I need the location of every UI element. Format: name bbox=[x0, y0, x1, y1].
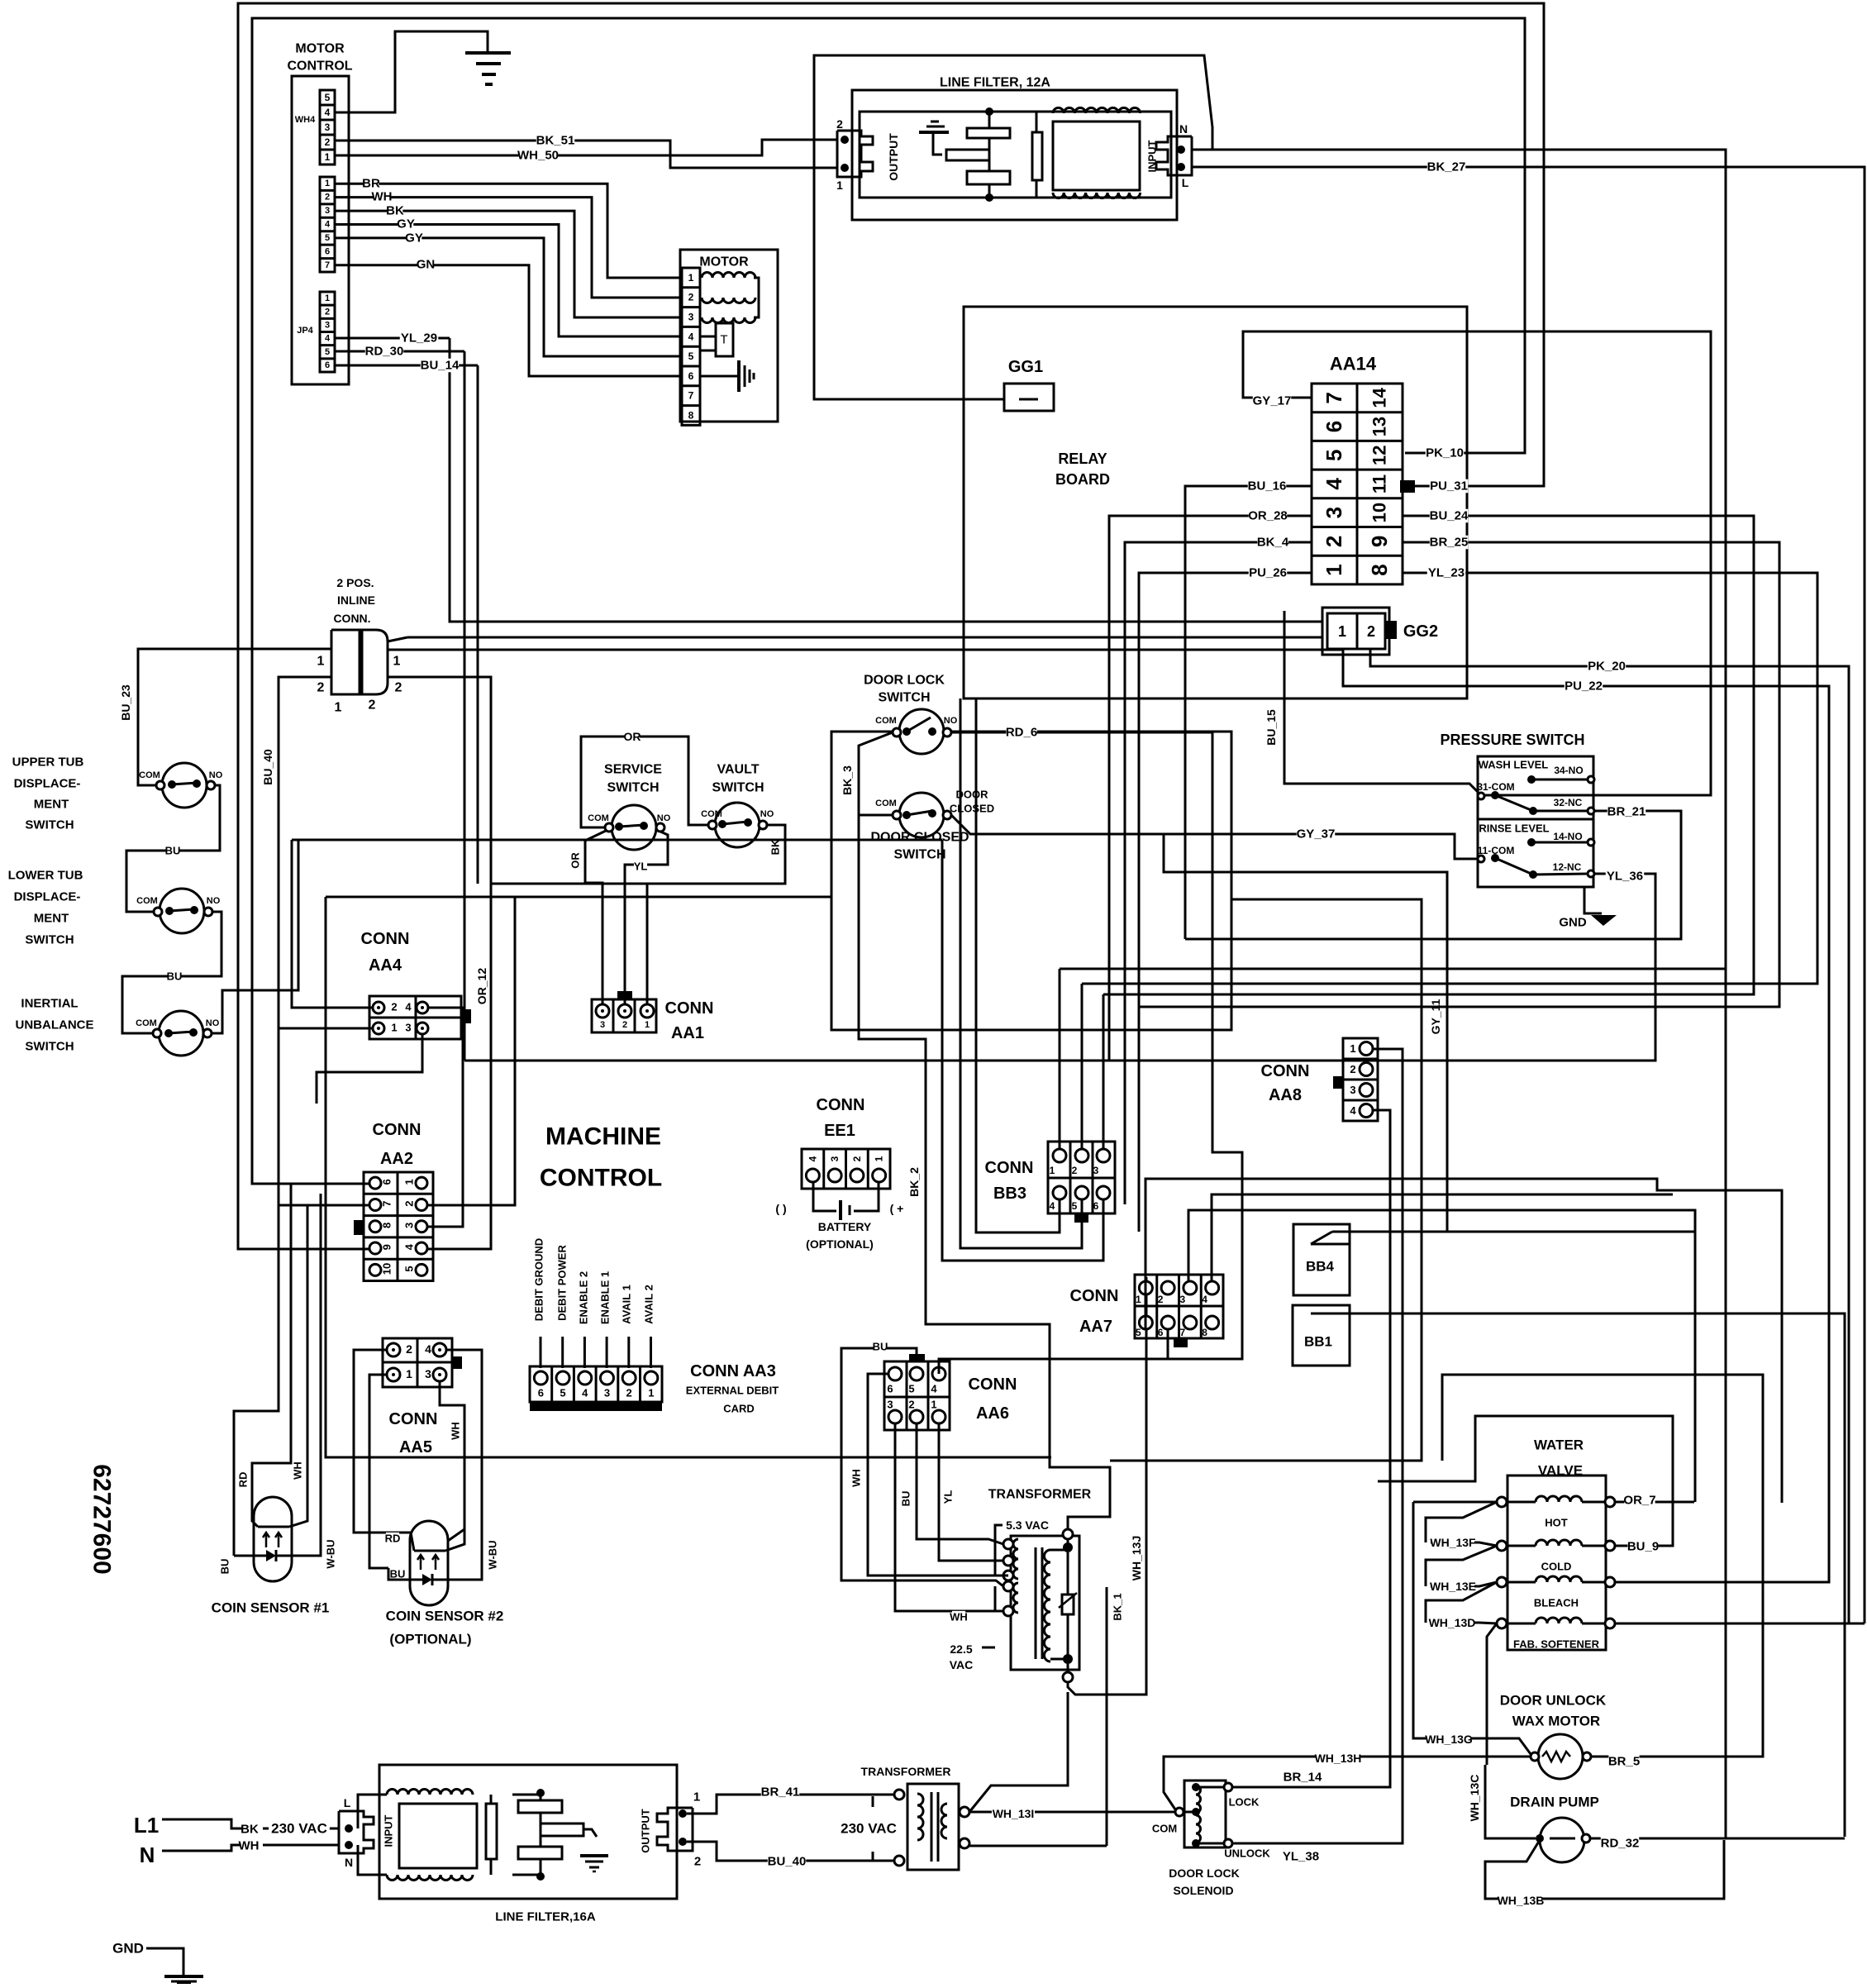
wire AA7 pin3 up bbox=[1188, 1210, 1695, 1502]
wire AA2 pin4 right bbox=[427, 884, 491, 1249]
wire RD_30 bbox=[335, 350, 464, 353]
svg-text:2: 2 bbox=[406, 1342, 412, 1356]
svg-text:1: 1 bbox=[393, 655, 401, 669]
line filter mid junctions bbox=[988, 112, 991, 128]
line filter 16A top coil bbox=[387, 1790, 473, 1795]
wire BR_14 bbox=[1232, 1786, 1390, 1789]
inertial switch circle bbox=[159, 1011, 203, 1056]
line filter cap 1 bbox=[967, 128, 1010, 138]
lower tub switch circle bbox=[160, 889, 204, 933]
svg-text:WH_13I: WH_13I bbox=[993, 1807, 1035, 1820]
wire 1069 line bbox=[491, 883, 647, 885]
svg-text:PK_20: PK_20 bbox=[1588, 660, 1626, 674]
line filter coil bottom bbox=[1053, 193, 1141, 198]
svg-text:5: 5 bbox=[688, 350, 694, 362]
wire BK_51 bbox=[335, 141, 837, 168]
svg-text:OR_7: OR_7 bbox=[1623, 1494, 1655, 1508]
motor winding 2 bbox=[702, 298, 755, 303]
svg-text:PU_31: PU_31 bbox=[1430, 479, 1468, 493]
svg-text:AA8: AA8 bbox=[1269, 1086, 1302, 1104]
svg-text:8: 8 bbox=[381, 1223, 393, 1228]
svg-text:4: 4 bbox=[1350, 1104, 1356, 1117]
svg-text:CONN.: CONN. bbox=[333, 612, 370, 625]
svg-text:GY_11: GY_11 bbox=[1429, 999, 1442, 1034]
svg-text:14: 14 bbox=[1369, 387, 1390, 408]
wire WH_13B bbox=[1485, 1840, 1724, 1899]
svg-text:14-NO: 14-NO bbox=[1553, 831, 1582, 842]
connector AA3 wires up bbox=[540, 1337, 542, 1368]
coin sensor 1 W-BU lead bbox=[292, 1194, 321, 1556]
drain pump contacts bbox=[1536, 1834, 1544, 1843]
svg-text:BLEACH: BLEACH bbox=[1534, 1597, 1579, 1609]
svg-text:INERTIAL: INERTIAL bbox=[21, 997, 78, 1011]
svg-text:5: 5 bbox=[1322, 450, 1346, 461]
svg-text:6: 6 bbox=[325, 360, 330, 370]
motor control middle pin block bbox=[320, 177, 335, 272]
svg-text:BR_5: BR_5 bbox=[1608, 1755, 1640, 1769]
svg-text:WH: WH bbox=[450, 1422, 462, 1440]
output pin 2 dot bbox=[841, 136, 849, 144]
svg-text:EXTERNAL DEBIT: EXTERNAL DEBIT bbox=[686, 1385, 779, 1397]
wire AA6 pin6 left bbox=[868, 1374, 1003, 1576]
connector AA5 bbox=[383, 1338, 452, 1387]
svg-text:CLOSED: CLOSED bbox=[950, 803, 994, 815]
svg-text:WASH LEVEL: WASH LEVEL bbox=[1479, 759, 1549, 771]
svg-text:YL_38: YL_38 bbox=[1283, 1850, 1319, 1864]
coin sensor 1 BU lead bbox=[234, 1555, 254, 1557]
wire AA8 pin1 right down bbox=[1316, 1049, 1403, 1843]
svg-text:13: 13 bbox=[1369, 417, 1390, 436]
water valve common bus diag HOT bbox=[1426, 1502, 1497, 1542]
wire WH_13E bbox=[1431, 1582, 1497, 1586]
svg-text:6: 6 bbox=[1322, 421, 1346, 432]
svg-text:OR: OR bbox=[624, 730, 641, 743]
svg-text:AVAIL 1: AVAIL 1 bbox=[621, 1285, 633, 1324]
output 16A dots bbox=[679, 1809, 687, 1818]
svg-text:CONN: CONN bbox=[389, 1410, 438, 1428]
svg-text:GY: GY bbox=[405, 231, 423, 246]
svg-text:CONN: CONN bbox=[665, 999, 714, 1018]
wire service NO YL bbox=[625, 832, 668, 1004]
svg-text:RD_32: RD_32 bbox=[1601, 1837, 1640, 1851]
wire OR_7 bbox=[1615, 1501, 1694, 1504]
svg-text:SWITCH: SWITCH bbox=[878, 691, 930, 705]
svg-text:3: 3 bbox=[405, 1022, 411, 1034]
line filter 12A inner box bbox=[860, 112, 1171, 198]
svg-text:8: 8 bbox=[1367, 564, 1392, 575]
svg-text:2: 2 bbox=[908, 1399, 914, 1411]
transformer core bbox=[1035, 1547, 1037, 1659]
svg-text:DOOR LOCK: DOOR LOCK bbox=[864, 674, 945, 688]
svg-text:CARD: CARD bbox=[723, 1403, 755, 1415]
svg-text:BB3: BB3 bbox=[993, 1185, 1026, 1203]
svg-text:4: 4 bbox=[405, 1001, 412, 1013]
vault switch contacts bbox=[708, 821, 717, 829]
svg-text:3: 3 bbox=[1322, 507, 1346, 518]
wire BB3 pin3 up bbox=[1103, 994, 1105, 1149]
wire BK_1 bbox=[1106, 1587, 1108, 1846]
svg-text:BU_23: BU_23 bbox=[119, 684, 132, 721]
line filter vertical resistor bbox=[1036, 112, 1038, 198]
wire BU_14 bbox=[335, 365, 478, 367]
line filter 16A bottom coil bbox=[387, 1875, 473, 1881]
wire service COM diagonal OR bbox=[585, 831, 606, 1004]
svg-text:COLD: COLD bbox=[1541, 1561, 1572, 1573]
AA3 black bar bbox=[530, 1402, 662, 1411]
AA8 black square bbox=[1333, 1076, 1343, 1089]
svg-text:2: 2 bbox=[391, 1001, 397, 1013]
motor pin block bbox=[682, 268, 700, 425]
svg-text:DISPLACE-: DISPLACE- bbox=[14, 890, 81, 904]
svg-text:UPPER TUB: UPPER TUB bbox=[12, 756, 84, 770]
motor winding 1 bbox=[702, 273, 755, 278]
svg-text:LINE FILTER, 12A: LINE FILTER, 12A bbox=[940, 76, 1050, 90]
wire BU_23 up bbox=[138, 649, 331, 785]
wire BB3 pin1 up bbox=[1059, 969, 1061, 1149]
svg-text:HOT: HOT bbox=[1545, 1517, 1568, 1529]
svg-text:2: 2 bbox=[403, 1201, 416, 1207]
svg-text:COM: COM bbox=[701, 809, 722, 819]
connector AA4 bbox=[369, 996, 461, 1039]
wire PU_31 big loop (AA2 pin9 to AA14 pin11 via left/top/right) bbox=[238, 3, 1544, 1249]
door lock switch contacts bbox=[893, 728, 901, 737]
svg-text:LINE FILTER,16A: LINE FILTER,16A bbox=[495, 1910, 596, 1924]
transformer 230 circles bbox=[894, 1790, 904, 1800]
connector AA14 pin11 black square bbox=[1400, 480, 1415, 493]
svg-text:L1: L1 bbox=[134, 1813, 159, 1838]
svg-text:BK: BK bbox=[769, 839, 782, 855]
svg-text:4: 4 bbox=[688, 331, 694, 342]
svg-text:32-NC: 32-NC bbox=[1554, 797, 1583, 808]
svg-text:1: 1 bbox=[693, 1790, 700, 1804]
wire vault NO BK bbox=[647, 825, 785, 1004]
svg-text:RD_30: RD_30 bbox=[365, 345, 404, 359]
svg-text:SWITCH: SWITCH bbox=[893, 848, 945, 862]
BB1 wire bbox=[1311, 1313, 1845, 1837]
coin sensor 2 WH lead bbox=[445, 1529, 464, 1551]
svg-text:5: 5 bbox=[403, 1266, 416, 1271]
svg-text:1: 1 bbox=[317, 655, 325, 669]
wire bundle 1172 horizontal (BB3 pin1 to N wire) bbox=[1060, 968, 1726, 970]
wire AA7 pin6 down bbox=[1167, 1329, 1169, 1359]
drain pump inner bbox=[1550, 1838, 1575, 1840]
svg-text:N: N bbox=[140, 1843, 155, 1867]
svg-text:CONTROL: CONTROL bbox=[287, 60, 352, 74]
coin sensor 2 W-BU lead bbox=[448, 1517, 482, 1580]
wire AA5 pin4 right bbox=[446, 1350, 482, 1517]
wire AA7 pin5 down WH_13J bbox=[1145, 1277, 1147, 1329]
svg-text:RINSE LEVEL: RINSE LEVEL bbox=[1479, 822, 1549, 835]
wire WH_13J vertical bbox=[1068, 1277, 1146, 1695]
svg-text:BU_15: BU_15 bbox=[1265, 709, 1278, 746]
coin sensor 1 RD lead bbox=[252, 1184, 291, 1527]
svg-text:BR_21: BR_21 bbox=[1607, 805, 1646, 819]
svg-text:4: 4 bbox=[325, 107, 331, 118]
varistor bbox=[1062, 1595, 1074, 1614]
svg-text:22.5: 22.5 bbox=[950, 1642, 972, 1656]
output connector 16A jigsaw bbox=[657, 1808, 693, 1851]
svg-text:COM: COM bbox=[1152, 1823, 1177, 1835]
upper tub switch circle bbox=[162, 763, 207, 808]
svg-text:VAC: VAC bbox=[950, 1658, 974, 1671]
svg-text:4: 4 bbox=[582, 1387, 588, 1399]
coin sensor 2 diode bbox=[422, 1574, 432, 1585]
svg-text:BU: BU bbox=[165, 845, 181, 857]
GND symbol bbox=[164, 1975, 203, 1978]
230 VAC label mid bbox=[838, 1821, 899, 1837]
svg-text:BOARD: BOARD bbox=[1055, 471, 1110, 488]
svg-text:MACHINE: MACHINE bbox=[545, 1123, 661, 1151]
svg-text:GND: GND bbox=[1559, 916, 1587, 930]
line filter 16A junctions bbox=[536, 1789, 545, 1797]
svg-text:T: T bbox=[720, 333, 727, 347]
wire water valve fab right bbox=[1615, 1623, 1865, 1625]
water valve bus diag BLEACH bbox=[1426, 1582, 1497, 1623]
connector GG2 bbox=[1322, 608, 1389, 655]
2 pos inline connector bbox=[331, 630, 360, 694]
svg-text:BU_9: BU_9 bbox=[1627, 1540, 1659, 1554]
svg-text:LOWER TUB: LOWER TUB bbox=[8, 869, 83, 883]
wire AA4 pin1 left bbox=[279, 1027, 373, 1030]
coin sensor 2 RD label bbox=[386, 1533, 399, 1544]
svg-text:7: 7 bbox=[325, 260, 330, 270]
svg-text:3: 3 bbox=[325, 320, 330, 330]
svg-text:GN: GN bbox=[417, 258, 436, 272]
door lock solenoid contacts bbox=[1175, 1808, 1184, 1816]
svg-text:WH_13J: WH_13J bbox=[1130, 1536, 1143, 1580]
svg-text:YL_29: YL_29 bbox=[401, 331, 437, 346]
wire BU_40 bottom bbox=[687, 1842, 894, 1861]
svg-text:230 VAC: 230 VAC bbox=[271, 1821, 327, 1837]
line filter core box bbox=[1053, 122, 1140, 190]
vault switch circle bbox=[715, 803, 760, 847]
coin sensor 2 BU label bbox=[391, 1568, 404, 1580]
motor box bbox=[680, 250, 778, 422]
svg-text:GY_17: GY_17 bbox=[1253, 394, 1292, 408]
output connector jigsaw (line filter 12A) bbox=[837, 131, 873, 177]
svg-text:CONN: CONN bbox=[361, 930, 410, 948]
svg-text:WAX MOTOR: WAX MOTOR bbox=[1512, 1714, 1600, 1729]
battery symbol bbox=[839, 1200, 842, 1220]
wire N to right bundle bbox=[1192, 150, 1726, 1838]
wax motor resistor bbox=[1542, 1752, 1570, 1762]
svg-text:WH_13C: WH_13C bbox=[1468, 1775, 1481, 1822]
svg-text:1: 1 bbox=[645, 1020, 650, 1030]
motor winding 3 bbox=[702, 317, 755, 323]
svg-text:WH: WH bbox=[239, 1839, 260, 1853]
svg-text:NO: NO bbox=[760, 809, 774, 819]
svg-text:2 POS.: 2 POS. bbox=[336, 576, 374, 589]
transformer secondary top wire bbox=[1050, 1549, 1068, 1552]
svg-text:BR_41: BR_41 bbox=[761, 1785, 800, 1800]
relay BB1 box bbox=[1293, 1305, 1350, 1366]
svg-text:ENABLE 1: ENABLE 1 bbox=[599, 1271, 612, 1324]
GND wire bbox=[146, 1948, 183, 1976]
svg-text:CONN: CONN bbox=[1261, 1062, 1310, 1080]
svg-text:2: 2 bbox=[622, 1020, 627, 1030]
svg-text:2: 2 bbox=[851, 1156, 863, 1161]
wire 2pos pin2 left (BU_40) bbox=[234, 677, 331, 1556]
connector AA1 black square bbox=[617, 991, 632, 999]
svg-text:AA7: AA7 bbox=[1079, 1318, 1112, 1336]
wire PK_10 loop (AA2 pin6 to AA14 pin12 via left/top) bbox=[252, 18, 1525, 1184]
svg-text:2: 2 bbox=[325, 307, 330, 317]
wire N bbox=[162, 1845, 250, 1851]
svg-text:4: 4 bbox=[325, 334, 331, 344]
wire GY_17 bbox=[1243, 331, 1711, 796]
svg-text:LOCK: LOCK bbox=[1229, 1796, 1260, 1809]
svg-text:WH_13F: WH_13F bbox=[1430, 1536, 1476, 1549]
svg-text:WH_13G: WH_13G bbox=[1425, 1733, 1473, 1746]
svg-text:AA6: AA6 bbox=[976, 1404, 1009, 1423]
svg-text:BU_40: BU_40 bbox=[261, 749, 274, 785]
wire AA7 pin1 up bbox=[1145, 1179, 1782, 1503]
svg-text:1: 1 bbox=[1322, 564, 1346, 575]
svg-text:PK_10: PK_10 bbox=[1426, 446, 1464, 460]
svg-text:CONN: CONN bbox=[969, 1375, 1017, 1394]
svg-text:11: 11 bbox=[1369, 474, 1390, 493]
connector WH4 pin block bbox=[320, 90, 335, 164]
svg-text:4: 4 bbox=[1202, 1294, 1207, 1305]
motor ground wire bbox=[700, 375, 739, 378]
svg-text:3: 3 bbox=[887, 1399, 893, 1411]
wire input N down into filter bbox=[358, 1845, 387, 1875]
svg-text:3: 3 bbox=[325, 122, 331, 133]
wire YL_38 bbox=[1232, 1843, 1403, 1845]
svg-text:WH_13E: WH_13E bbox=[1430, 1580, 1476, 1593]
svg-text:PRESSURE SWITCH: PRESSURE SWITCH bbox=[1440, 732, 1584, 748]
svg-text:YL_23: YL_23 bbox=[1428, 566, 1465, 580]
svg-text:WATER: WATER bbox=[1534, 1437, 1584, 1453]
svg-text:SWITCH: SWITCH bbox=[25, 933, 74, 947]
AA4 black square bbox=[461, 1009, 471, 1023]
svg-text:3: 3 bbox=[688, 312, 694, 323]
wire WH_13D bbox=[1431, 1623, 1497, 1623]
svg-text:10: 10 bbox=[381, 1263, 393, 1275]
wire BK_2 bbox=[859, 815, 1110, 1533]
svg-text:BK_51: BK_51 bbox=[536, 134, 575, 148]
svg-text:2: 2 bbox=[325, 136, 331, 148]
input pin N dot bbox=[1177, 145, 1185, 154]
5.3 vac arrow bbox=[995, 1525, 1008, 1576]
svg-text:COIN SENSOR #1: COIN SENSOR #1 bbox=[212, 1600, 330, 1616]
svg-text:BK_27: BK_27 bbox=[1427, 160, 1466, 174]
svg-text:PU_26: PU_26 bbox=[1249, 566, 1287, 580]
svg-text:1: 1 bbox=[325, 179, 330, 188]
svg-text:MOTOR: MOTOR bbox=[295, 42, 345, 56]
wire AA2 pin3 right bbox=[427, 1083, 463, 1227]
wire AA6 pin2 down bbox=[917, 1423, 1003, 1544]
svg-text:BR_14: BR_14 bbox=[1284, 1771, 1322, 1785]
wire AA4 pin2 left bbox=[292, 840, 373, 1008]
svg-text:3: 3 bbox=[604, 1387, 610, 1399]
line filter 16A ground bbox=[580, 1854, 608, 1857]
svg-text:NO: NO bbox=[209, 770, 223, 780]
svg-text:9: 9 bbox=[1367, 536, 1392, 547]
svg-text:MOTOR: MOTOR bbox=[699, 255, 749, 269]
svg-text:5: 5 bbox=[560, 1387, 565, 1399]
wire AA5 pin3 down bbox=[440, 1381, 464, 1541]
wire BB3 pin2 up bbox=[1081, 984, 1084, 1149]
svg-text:BR: BR bbox=[362, 177, 380, 191]
connector BB3 bbox=[1048, 1142, 1115, 1213]
wire BR_21 bbox=[1185, 811, 1681, 939]
svg-text:1: 1 bbox=[403, 1179, 416, 1185]
svg-text:5: 5 bbox=[908, 1383, 914, 1395]
svg-text:COM: COM bbox=[136, 896, 158, 906]
svg-text:L: L bbox=[344, 1796, 351, 1809]
connector AA6 bbox=[884, 1361, 950, 1430]
svg-text:BB1: BB1 bbox=[1304, 1334, 1332, 1350]
wire input L up into filter bbox=[358, 1795, 387, 1828]
svg-text:DEBIT GROUND: DEBIT GROUND bbox=[533, 1238, 545, 1321]
wire AA2 pin7 left bbox=[279, 1204, 369, 1207]
svg-text:5: 5 bbox=[325, 92, 331, 103]
transformer primary coil lower bbox=[1013, 1583, 1018, 1613]
svg-text:5: 5 bbox=[1136, 1327, 1141, 1338]
svg-text:RD_6: RD_6 bbox=[1006, 726, 1037, 740]
wire YL_29 bbox=[335, 337, 450, 340]
connector AA14 bbox=[1312, 384, 1403, 584]
svg-text:6: 6 bbox=[538, 1387, 544, 1399]
svg-text:4: 4 bbox=[931, 1383, 937, 1395]
wire upper NO to BU bbox=[126, 785, 220, 912]
svg-text:9: 9 bbox=[381, 1244, 393, 1250]
connector EE1 bbox=[802, 1149, 890, 1189]
svg-text:7: 7 bbox=[1322, 392, 1346, 403]
svg-text:NO: NO bbox=[657, 813, 671, 823]
battery wiring bbox=[813, 1182, 836, 1211]
wire WH_50 bbox=[335, 140, 837, 155]
svg-text:UNBALANCE: UNBALANCE bbox=[16, 1018, 94, 1032]
svg-text:2: 2 bbox=[369, 698, 376, 713]
wire transformer secondary top diagonal bbox=[969, 1692, 1068, 1812]
wire WH_13C bbox=[1485, 1765, 1536, 1838]
wire BK_27 (L to right edge) bbox=[1192, 167, 1865, 1623]
svg-text:6: 6 bbox=[887, 1383, 893, 1395]
wire HOT common lead bbox=[1413, 1501, 1497, 1504]
svg-text:WH: WH bbox=[372, 190, 393, 204]
GG2 black square bbox=[1384, 621, 1397, 639]
svg-text:1: 1 bbox=[391, 1022, 397, 1034]
svg-text:3: 3 bbox=[1093, 1165, 1099, 1176]
connector AA8 bbox=[1343, 1038, 1378, 1121]
svg-text:1: 1 bbox=[836, 179, 843, 192]
svg-text:BK_3: BK_3 bbox=[841, 765, 854, 795]
wax motor circle bbox=[1538, 1734, 1583, 1779]
door lock solenoid box bbox=[1184, 1781, 1226, 1847]
svg-text:BK: BK bbox=[386, 204, 404, 218]
transformer 230 secondary coil bbox=[941, 1804, 947, 1838]
svg-text:SWITCH: SWITCH bbox=[25, 1040, 74, 1054]
wire WH_13I bbox=[969, 1811, 1174, 1814]
svg-text:NO: NO bbox=[207, 896, 221, 906]
line filter 12A box bbox=[852, 90, 1177, 220]
svg-text:COM: COM bbox=[136, 1018, 157, 1028]
connector AA2 bbox=[364, 1172, 433, 1281]
svg-text:SOLENOID: SOLENOID bbox=[1173, 1884, 1233, 1897]
svg-text:BR_25: BR_25 bbox=[1430, 536, 1469, 550]
svg-text:BATTERY: BATTERY bbox=[818, 1220, 872, 1233]
svg-text:31-COM: 31-COM bbox=[1477, 781, 1514, 793]
svg-text:YL_36: YL_36 bbox=[1607, 870, 1643, 884]
wire motor-control pin4 to chassis ground bbox=[335, 31, 488, 112]
svg-text:6: 6 bbox=[1158, 1327, 1164, 1338]
wire lower NO to BU2 bbox=[122, 912, 221, 1033]
svg-text:WH_13H: WH_13H bbox=[1315, 1752, 1362, 1765]
ground symbol (top center) bbox=[465, 51, 511, 55]
svg-text:6: 6 bbox=[688, 370, 694, 382]
